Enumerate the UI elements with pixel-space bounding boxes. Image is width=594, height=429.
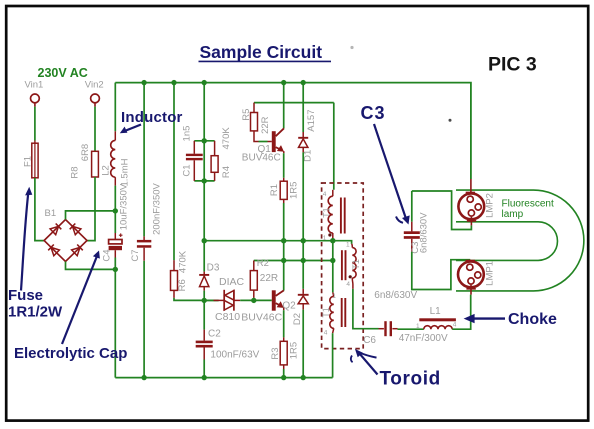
svg-text:L2: L2 [101,165,112,176]
resistor R4 470K [211,127,232,181]
svg-text:R8: R8 [70,166,81,178]
svg-text:6n8/630V: 6n8/630V [418,212,429,253]
svg-text:R1: R1 [269,184,280,196]
svg-text:1R5: 1R5 [289,342,300,359]
annotation Electrolytic Cap with arrow [14,251,127,362]
svg-text:1R1/2W: 1R1/2W [8,303,63,320]
wire lamp LMP2 bottom pin to C3 [412,191,472,230]
svg-text:C6: C6 [363,335,376,346]
svg-text:Fuse: Fuse [8,287,43,304]
svg-text:Toroid: Toroid [380,369,441,390]
wire C4 to bottom bus [114,258,116,378]
svg-text:200nF/350V: 200nF/350V [151,182,162,234]
inductor L2 1.5mH [101,83,131,187]
svg-text:1: 1 [346,241,350,248]
svg-text:1: 1 [323,235,327,242]
wire Q1 emitter to R1 [283,153,285,178]
junction nodes C4 rail [113,208,118,272]
svg-text:22R: 22R [260,116,271,134]
wire C1/R4 top rail [194,140,214,142]
wire C6 to choke L1 [398,328,424,330]
svg-text:lamp: lamp [502,209,524,220]
wire top bus to R6 [173,83,175,261]
svg-text:F1: F1 [23,156,34,167]
svg-text:1R5: 1R5 [288,182,299,199]
toroid dashed enclosure [322,183,364,349]
svg-text:4: 4 [346,281,350,288]
capacitor C7 200nF/350V [130,182,162,261]
transistor Q2 BUV46C [241,290,296,323]
wire R6 to diac line [174,298,219,301]
svg-text:R2: R2 [257,258,269,269]
svg-text:DIAC: DIAC [219,276,245,288]
svg-text:B1: B1 [45,208,57,219]
svg-text:D2: D2 [292,313,303,325]
junction nodes mid rail [202,238,336,243]
annotation Fuse 1R1/2W with arrow [8,187,63,321]
svg-text:R4: R4 [221,166,232,178]
transformer winding T1c bottom [321,292,345,336]
junction nodes diac line [202,298,257,303]
svg-text:22R: 22R [260,273,278,284]
svg-text:Sample Circuit: Sample Circuit [200,42,323,62]
svg-text:T1: T1 [322,207,332,218]
label Fluorescent lamp [502,198,554,220]
transformer winding T1b middle [342,241,361,289]
svg-text:6n8/630V: 6n8/630V [374,290,417,301]
wire diac line left segment [204,299,218,301]
svg-text:R3: R3 [270,347,281,359]
svg-text:T1: T1 [321,307,331,318]
diode D3 [199,262,220,290]
wire down to C3 [411,191,413,222]
wire C1/R4 bottom rail [194,180,214,182]
wire bottom bus [115,377,332,379]
wire C3 to lamp LMP1 top pin [412,252,470,290]
svg-text:100nF/63V: 100nF/63V [210,350,259,361]
svg-text:Inductor: Inductor [121,109,183,126]
stray speck right area [449,119,452,122]
wire bridge bottom to C4 rail [66,262,116,270]
svg-text:LMP1: LMP1 [484,261,495,286]
wire Q2 emitter to R3 [283,310,285,337]
wire R2 to diac line node [253,298,255,301]
wire D3 to diac line [203,291,205,301]
svg-text:1: 1 [332,293,336,300]
svg-text:C810: C810 [215,311,240,323]
wire L1 to lamp LMP1 [452,295,471,330]
wire L2 to C4 rail [114,186,116,233]
annotation Choke with arrow [464,311,557,328]
wire F1 to bridge left corner [35,178,44,241]
wire upper mid bus down to winding T1a [333,103,335,190]
svg-text:Vin2: Vin2 [85,80,104,91]
svg-text:D3: D3 [207,262,220,273]
wire R1 down through mid nodes to Q2 collector [283,203,285,291]
bridge rectifier B1 [44,208,87,262]
transformer winding T1a top [322,190,345,242]
annotation C3 with arrow [361,103,410,225]
wire half-bridge mid rail to toroid [204,241,351,244]
svg-text:T1: T1 [351,259,361,270]
svg-text:L1: L1 [430,306,442,317]
wire upper mid bus R5 to toroid [254,102,334,104]
resistor R1 1R5 [269,178,299,203]
svg-text:Fluorescent: Fluorescent [502,198,554,209]
resistor R8 [70,144,99,179]
transistor Q1 BUV46C [242,128,284,163]
svg-text:4: 4 [453,321,457,328]
svg-text:4: 4 [324,330,328,337]
svg-text:C7: C7 [130,249,141,261]
annotation Toroid with arrow [351,349,441,390]
junction nodes bottom bus [141,375,305,380]
wire C2 to bottom bus [203,360,205,378]
capacitor C1 1n5 [182,126,203,181]
fuse F1 [23,141,38,178]
wire Vin1 to fuse F1 [34,107,36,141]
svg-text:BUV46C: BUV46C [242,153,281,164]
wire top bus down C1/R4/D3 rail [203,83,205,241]
svg-text:BUV46C: BUV46C [241,312,282,324]
wire lower mid rail R2 to toroid [254,260,333,262]
junction nodes C1 R4 [202,138,207,183]
svg-text:C1: C1 [182,164,193,176]
diode D2 [292,289,309,325]
lamp socket LMP1 [458,260,495,295]
svg-text:470K: 470K [221,127,232,150]
title Sample Circuit [199,42,332,62]
svg-text:4: 4 [323,191,327,198]
terminal Vin2 [85,80,104,107]
wire winding T1a down to winding T1c [332,241,334,293]
wire D1 to mid nodes and D2 [302,152,304,289]
annotation Inductor with arrow [120,109,183,133]
wire C1 rail down to D3 [203,241,205,272]
choke L1 [416,306,457,330]
wire winding T1c to bottom bus right end [332,333,334,377]
diac C810 [214,276,245,323]
wire C7 to bottom bus [143,261,145,378]
wire winding T1b down to C6 line [353,289,379,329]
svg-text:470K: 470K [178,250,189,273]
electrolytic capacitor C4 10uF/350V [101,183,129,261]
stray speck near title [350,46,353,49]
svg-text:1.5mH: 1.5mH [120,158,131,186]
wire C1 rail to C2 [203,300,205,329]
fluorescent tube outline [456,190,584,291]
capacitor C2 100nF/63V [196,329,260,361]
svg-text:6R8: 6R8 [80,144,91,161]
svg-text:1n5: 1n5 [182,126,193,142]
wire top bus to D1 [302,83,304,132]
svg-text:C2: C2 [208,329,221,340]
wire R8 to bridge right corner [87,177,95,241]
svg-text:C3: C3 [361,103,386,123]
resistor R5 22R [241,103,271,134]
svg-text:Vin1: Vin1 [25,80,44,91]
svg-text:LMP2: LMP2 [484,193,495,218]
wire R5 to Q1 base [254,131,272,142]
svg-text:Choke: Choke [508,311,557,328]
wire top bus from L2 to lamp LMP2 [115,83,471,179]
wire Vin2 to resistor R8 [94,107,96,152]
svg-text:47nF/300V: 47nF/300V [399,333,448,344]
wire diac to Q2 base [240,299,272,301]
wire R3 to bottom bus [283,369,285,378]
junction nodes lower mid rail [281,258,335,263]
resistor R3 1R5 [270,337,299,369]
capacitor C6 47nF/300V [363,321,448,346]
svg-text:D1: D1 [303,150,314,162]
resistor R6 470K [171,250,189,298]
svg-text:R6: R6 [177,279,188,291]
wire top bus to Q1 collector [283,83,285,129]
svg-text:Q2: Q2 [282,301,296,312]
terminal Vin1 [25,80,44,107]
svg-text:230V AC: 230V AC [38,66,88,80]
junction nodes top bus [141,80,305,85]
svg-text:C4: C4 [101,249,112,261]
wire bridge top to C4 rail [66,211,116,220]
lamp socket LMP2 [458,179,495,225]
wire top bus to C7 [143,83,145,237]
svg-text:10uF/350V: 10uF/350V [119,183,130,230]
resistor R2 22R [250,258,278,298]
diode D1 A157 [298,110,317,162]
svg-text:R5: R5 [241,109,252,121]
svg-text:PIC 3: PIC 3 [488,54,537,76]
svg-text:A157: A157 [306,110,317,132]
capacitor C3 6n8/630V [404,212,430,254]
svg-text:1: 1 [416,323,420,330]
svg-text:Electrolytic Cap: Electrolytic Cap [14,345,127,362]
wire D2 to bottom bus [302,310,304,378]
